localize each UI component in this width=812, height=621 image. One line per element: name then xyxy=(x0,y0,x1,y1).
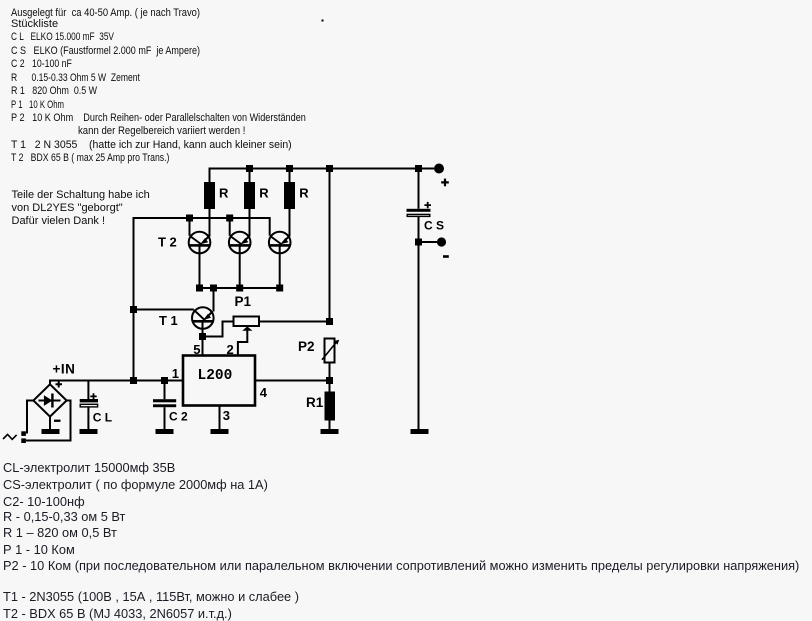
svg-text:P1: P1 xyxy=(235,294,252,309)
junction on rail above R2 xyxy=(246,165,253,172)
svg-text:1: 1 xyxy=(172,366,179,381)
svg-text:+IN: +IN xyxy=(53,362,76,377)
bridge minus sign xyxy=(54,420,61,422)
junction CS minus node xyxy=(415,239,422,246)
parts list line P1 xyxy=(11,100,64,111)
AC squiggle xyxy=(3,434,17,439)
wire T2a base lead xyxy=(199,247,201,289)
wire T2b emitter lead xyxy=(249,209,251,237)
wire collector bus and left drop xyxy=(134,218,270,381)
transistor T2c xyxy=(269,232,291,254)
capacitor CL plate bottom xyxy=(80,404,97,407)
parts list line P2 xyxy=(11,113,306,124)
cyrillic line CS xyxy=(3,479,268,492)
parts list line T1 xyxy=(11,140,292,151)
capacitor CS plate top xyxy=(407,209,431,212)
bridge diode line xyxy=(39,400,61,402)
transistor T2a xyxy=(189,232,211,254)
wire P2 bottom lead xyxy=(329,363,331,381)
wire P2 branch drop xyxy=(329,169,331,322)
cyrillic line C2 xyxy=(3,496,85,509)
wire L200 pin4 xyxy=(255,380,330,382)
wire base bus xyxy=(200,287,280,289)
wire T2a emitter lead xyxy=(209,209,211,237)
junction base bus T2b xyxy=(236,285,243,292)
junction collector bus T2b xyxy=(226,215,233,222)
wire C2 bottom lead xyxy=(164,407,166,429)
resistor R first body xyxy=(204,182,215,209)
svg-text:C L: C L xyxy=(93,411,112,425)
wire T2b collector lead xyxy=(229,218,231,236)
terminal minus output xyxy=(437,237,446,246)
cyrillic line R1 xyxy=(3,527,117,540)
svg-text:R: R xyxy=(259,186,269,201)
capacitor CS plus xyxy=(424,202,431,208)
wire L200 pin3 lead xyxy=(219,406,221,430)
wire T2c emitter lead xyxy=(289,209,291,237)
parts list line P2 continuation xyxy=(78,126,245,137)
capacitor C2 plate top xyxy=(153,399,176,402)
svg-text:4: 4 xyxy=(260,385,268,400)
wire +IN rail xyxy=(50,381,183,385)
wire bridge right AC wire xyxy=(26,401,71,441)
wire CS top lead xyxy=(418,169,420,209)
transistor T1 xyxy=(192,307,214,329)
wire bridge minus lead xyxy=(49,417,51,430)
parts list line R xyxy=(11,73,140,84)
capacitor CL plate top xyxy=(80,399,98,402)
wire resistor R3 top lead xyxy=(289,169,291,183)
cyrillic line P1 xyxy=(3,544,75,557)
parts list line CS xyxy=(11,46,200,57)
terminal plus output xyxy=(434,164,444,174)
svg-text:R: R xyxy=(219,186,229,201)
wire resistor R2 top lead xyxy=(249,169,251,183)
svg-text:C S: C S xyxy=(424,219,444,233)
wire T1 emitter lead down xyxy=(202,323,204,337)
wire CS minus to ground xyxy=(418,242,420,430)
parts list line 2 xyxy=(11,19,58,30)
resistor R third body xyxy=(284,182,295,209)
bridge diode triangle xyxy=(44,395,53,406)
output minus sign xyxy=(443,255,449,258)
parts list line 1 xyxy=(11,8,200,19)
ground below C2 xyxy=(156,429,174,434)
svg-text:R1: R1 xyxy=(306,395,324,410)
wire C2 top lead xyxy=(164,381,166,400)
junction base bus T2a xyxy=(196,285,203,292)
ground below R1 xyxy=(321,429,339,434)
cyrillic line T1 xyxy=(3,591,299,604)
svg-text:R: R xyxy=(299,186,309,201)
junction +IN rail left line xyxy=(130,377,137,384)
wire P1 wiper to pin2 xyxy=(238,331,247,356)
resistor R1 body xyxy=(325,392,336,421)
wire T2c base lead xyxy=(279,247,281,289)
junction on rail P2 branch xyxy=(326,165,333,172)
cyrillic line CL xyxy=(3,462,175,475)
output plus sign xyxy=(441,179,449,187)
junction base bus T2c xyxy=(276,285,283,292)
ground below bridge xyxy=(42,429,60,434)
cyrillic line T2 xyxy=(3,608,232,621)
junction base bus T1 drive xyxy=(210,285,217,292)
note line 1 xyxy=(12,190,150,201)
wire T1 drive from base bus xyxy=(213,288,215,312)
wire R1 top lead xyxy=(329,381,331,392)
svg-text:T 1: T 1 xyxy=(159,313,178,328)
wire T2a collector lead xyxy=(189,218,191,236)
bridge diode bar xyxy=(51,394,53,408)
svg-text:T 2: T 2 xyxy=(158,234,177,249)
cyrillic line R xyxy=(3,511,125,524)
svg-text:P2: P2 xyxy=(298,339,315,354)
svg-text:C 2: C 2 xyxy=(169,410,188,424)
AC terminal lower xyxy=(21,438,26,443)
cyrillic line P2 xyxy=(3,560,799,573)
transistor T2b xyxy=(229,232,251,254)
svg-text:3: 3 xyxy=(223,408,230,423)
parts list line T2 xyxy=(11,153,169,164)
wire CL bottom lead xyxy=(87,407,89,429)
ground below CL xyxy=(80,429,98,434)
capacitor CL plus xyxy=(90,393,96,399)
AC terminal upper xyxy=(21,431,26,436)
junction on rail CS branch xyxy=(415,165,422,172)
wire R1 bottom lead xyxy=(329,421,331,430)
junction on rail above R3 xyxy=(286,165,293,172)
stray dot xyxy=(322,20,324,22)
parts list line R1 xyxy=(11,86,97,97)
wire output top rail xyxy=(210,169,435,183)
capacitor CS plate bottom xyxy=(407,214,430,216)
svg-text:2: 2 xyxy=(227,342,234,357)
ground below pin3 xyxy=(211,429,229,434)
wire CS bottom lead xyxy=(418,217,420,242)
IC U1 L200 box xyxy=(183,356,255,406)
parts list line CL xyxy=(11,32,114,43)
wire P1 right to P2 node xyxy=(259,321,330,323)
potentiometer P2 xyxy=(322,339,339,363)
parts list line C2 xyxy=(11,59,72,70)
junction T1 emitter node xyxy=(199,333,206,340)
svg-text:L200: L200 xyxy=(198,368,233,384)
wire CL top lead xyxy=(87,381,89,400)
note line 3 xyxy=(12,216,106,227)
wire T1 base from left line xyxy=(134,309,194,311)
junction collector bus T2a xyxy=(186,215,193,222)
potentiometer P1 xyxy=(234,317,260,331)
junction P1 right P2 top xyxy=(326,318,333,325)
ground right rail xyxy=(411,429,429,434)
svg-text:5: 5 xyxy=(193,342,200,357)
wire bridge left AC wire xyxy=(27,401,33,434)
wire T2b base lead xyxy=(239,247,241,289)
capacitor C2 plate bottom xyxy=(153,404,176,407)
bridge rectifier diamond xyxy=(33,384,66,416)
wire T1 node to P1 left xyxy=(203,322,234,337)
junction left line T1 base xyxy=(130,306,137,313)
note line 2 xyxy=(12,203,123,214)
junction pin4 R1 node xyxy=(326,377,333,384)
wire L200 pin5 lead xyxy=(202,337,204,356)
resistor R second body xyxy=(244,182,255,209)
wire CS minus terminal xyxy=(419,241,438,243)
junction +IN rail C2 xyxy=(161,377,168,384)
bridge plus sign xyxy=(56,381,63,388)
